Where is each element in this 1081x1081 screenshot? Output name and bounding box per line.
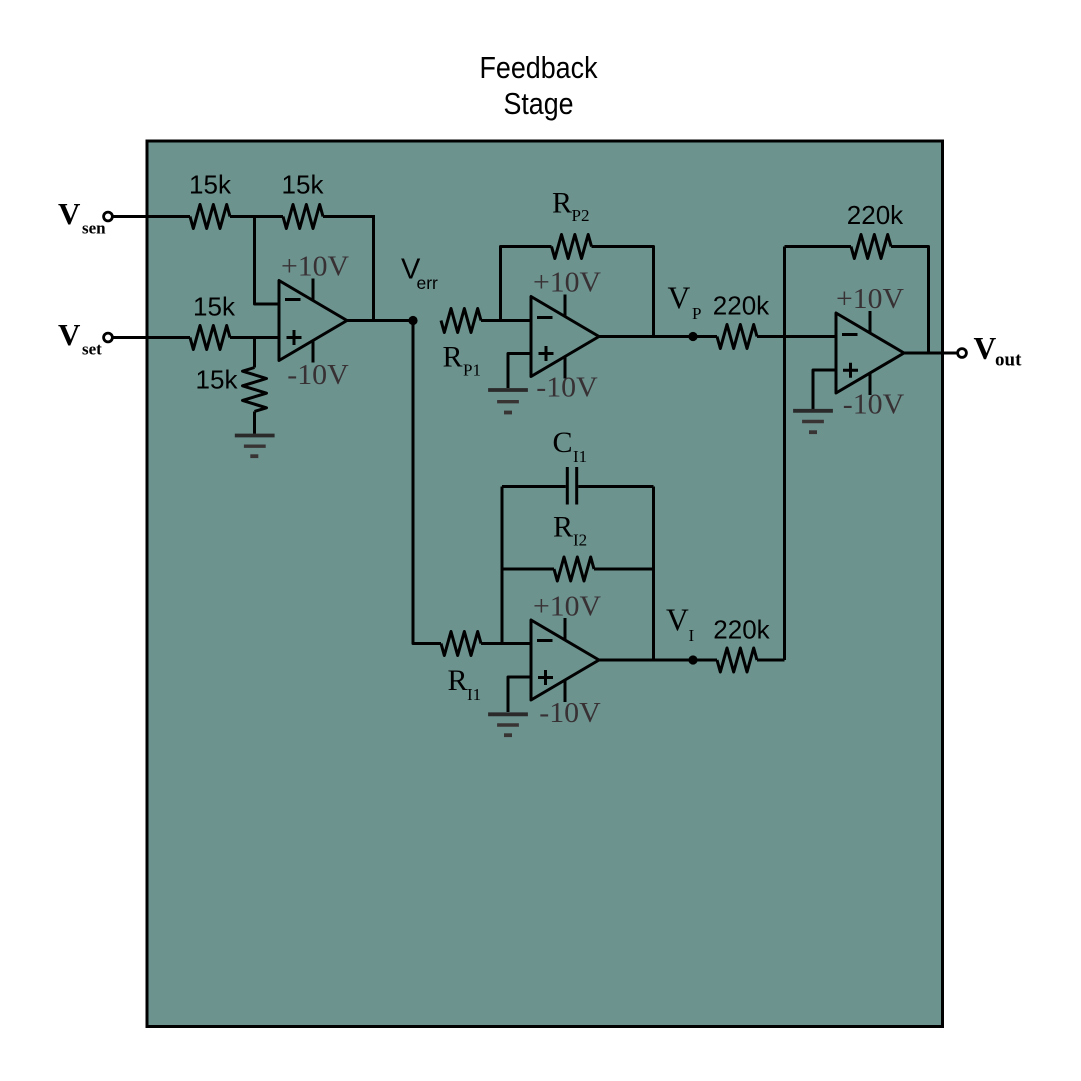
U4 minus pin mark [842,333,858,336]
wire cap top right [578,485,653,488]
U3 minus pin mark [537,639,553,642]
svg-text:R: R [448,664,468,697]
label RP2 [552,187,589,226]
label RI1 [448,664,482,704]
wire cap top left [502,485,566,488]
wire U2 noninverting to ground G2 [508,354,531,389]
svg-text:Stage: Stage [504,86,574,121]
svg-text:R: R [553,511,573,544]
wire feedback top to corner [323,215,374,218]
resistor RI1 [441,632,481,656]
U2 -10V stub [564,357,567,379]
label Vset [58,317,102,359]
svg-text:-10V: -10V [539,698,601,729]
svg-text:+10V: +10V [836,284,904,315]
svg-text:V: V [668,281,691,316]
wire U3 feedback right vertical [652,487,655,661]
wire RI2 left [502,568,554,571]
svg-text:R: R [443,341,463,374]
node VP dot [688,332,697,341]
wire U3 output to node VI [599,659,717,662]
wire U2 feedback left vertical [501,247,552,321]
U1 minus pin mark [285,298,301,301]
resistor 220k (P branch) [717,325,757,349]
wire U2 output to node VP [599,335,717,338]
resistor 220k (U4 feedback) [851,235,891,259]
terminal Vout [958,349,967,358]
svg-text:-10V: -10V [287,360,349,391]
label VI [666,603,695,646]
wire RP1 to U2 inverting input [481,319,531,322]
svg-text:15k: 15k [193,292,236,322]
U4 plus pin mark [843,363,858,378]
svg-text:I: I [689,626,695,645]
ground G1 [235,436,275,457]
wire Verr down to integrator input [413,321,441,644]
U3 plus pin mark [538,670,553,685]
svg-text:V: V [58,317,81,352]
wire to noninverting input U1 [230,336,279,339]
svg-text:+10V: +10V [533,268,601,299]
svg-text:+10V: +10V [281,252,349,283]
svg-text:P2: P2 [572,206,590,225]
svg-text:220k: 220k [713,615,770,645]
resistor 15k (to ground, vertical) [243,368,267,412]
svg-text:+10V: +10V [533,592,601,623]
wire feedback vertical U1 [372,215,375,321]
wire 220k to U4 inverting input [757,335,836,338]
wire U4 output to terminal [904,352,958,355]
feedback stage bounding box [147,141,943,1027]
svg-text:out: out [995,350,1022,371]
U1 plus pin mark [287,330,302,345]
svg-text:I1: I1 [573,447,587,466]
svg-text:15k: 15k [196,365,239,395]
terminal Vset [104,333,113,342]
title Feedback Stage [480,50,598,121]
op-amp U3 [531,620,599,700]
resistor RI2 [554,557,594,581]
wire Vsen lead [113,215,191,218]
svg-text:I1: I1 [467,685,481,704]
svg-text:15k: 15k [282,170,325,200]
svg-text:set: set [82,340,102,359]
terminal Vsen [104,212,113,221]
svg-text:C: C [553,426,573,459]
svg-text:I2: I2 [573,531,587,550]
U2 +10V stub [564,295,567,317]
label CI1 [553,426,588,466]
ground G4 [793,411,833,432]
resistor 15k (feedback of U1) [283,205,323,229]
wire RI1 to U3 inverting input [481,642,531,645]
label RP1 [443,341,481,380]
wire node A segment [230,215,283,218]
svg-text:-10V: -10V [536,373,598,404]
wire summing junction vertical [783,247,786,661]
svg-text:err: err [417,273,439,293]
svg-text:220k: 220k [847,200,904,230]
wire RP2 to right vertical down to VP rail [592,247,654,337]
op-amp U1 [279,281,347,361]
label RI2 [553,511,587,550]
U3 +10V stub [564,618,567,640]
wire U1 output to node Verr [347,319,413,322]
svg-text:R: R [552,187,572,220]
U2 minus pin mark [537,316,553,319]
wire U4 feedback top left [785,245,852,248]
op-amp U2 [531,297,599,377]
svg-text:220k: 220k [713,291,770,321]
svg-text:sen: sen [82,219,106,238]
node VI dot [688,655,697,664]
wire U3 feedback left vertical [501,487,504,644]
svg-text:15k: 15k [189,170,232,200]
U1 +10V stub [312,279,315,301]
U2 plus pin mark [539,346,554,361]
ground G2 [488,390,528,413]
svg-text:Feedback: Feedback [480,50,598,85]
svg-text:P: P [692,304,701,323]
resistor RP1 [441,309,481,333]
svg-text:P1: P1 [463,361,481,380]
U4 +10V stub [869,311,872,333]
svg-text:V: V [974,331,997,366]
resistor 15k (Vset input) [190,326,230,350]
wire resistor to ground G1 [253,412,256,434]
capacitor CI1 [567,467,576,505]
wire U3 noninverting to ground G3 [508,677,531,712]
wire node A down to inverting input [255,217,280,305]
wire U4 noninverting to ground G4 [813,370,836,409]
label Vsen [58,196,106,238]
label VP [668,281,702,324]
svg-text:-10V: -10V [843,390,905,421]
wire node B down [253,338,256,368]
U4 -10V stub [869,373,872,395]
wire RI2 right [594,568,654,571]
U3 -10V stub [564,680,567,702]
node Verr dot [408,316,417,325]
svg-text:V: V [58,196,81,231]
wire 220k I to summing junction [757,659,785,662]
resistor 15k (Vsen input) [190,205,230,229]
U1 -10V stub [312,341,315,363]
ground G3 [488,714,528,735]
resistor RP2 [552,235,592,259]
label Vout [974,331,1023,371]
svg-text:V: V [666,603,689,638]
op-amp U4 [836,313,904,393]
wire U4 feedback right vertical [891,247,929,354]
resistor 220k (I branch) [717,648,757,672]
label Verr [401,254,438,293]
wire Vset lead [113,336,191,339]
